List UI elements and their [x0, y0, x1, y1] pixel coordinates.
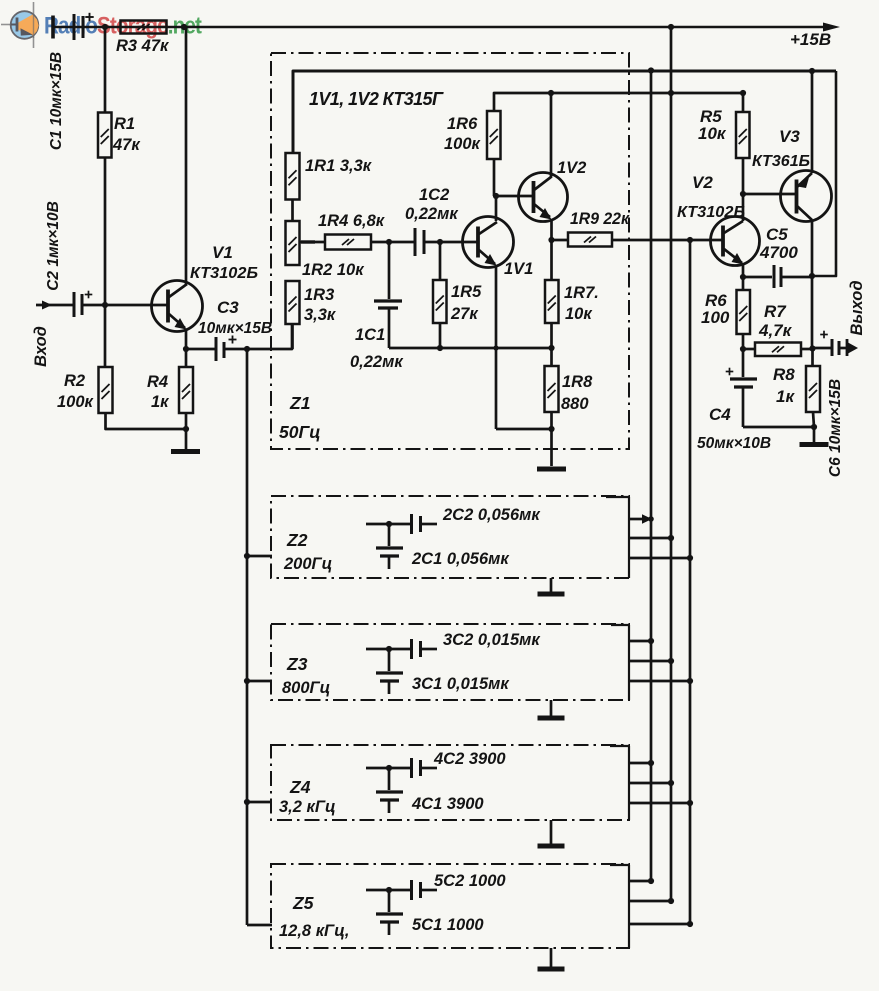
svg-text:880: 880 [561, 395, 589, 413]
wire 1C2 to 1V1 base [425, 241, 477, 244]
wire rail to R1 [104, 27, 107, 112]
resistor 1R8 [550, 348, 553, 366]
transistor 1V2 KT315G [519, 173, 568, 222]
capacitor 2C2 [366, 523, 410, 526]
wire Z3 right border solid [628, 625, 630, 700]
svg-text:4700: 4700 [759, 243, 798, 262]
wire node to R2 [104, 305, 107, 367]
wire 1R9 to V2 base [612, 239, 722, 242]
svg-text:1R4 6,8к: 1R4 6,8к [318, 212, 386, 230]
wire 1R6 top supply [494, 93, 743, 111]
wire Z2 right border solid [628, 497, 630, 578]
transistor V2 KT3102B [711, 217, 760, 266]
wire Z2 branch2 [629, 537, 671, 540]
svg-text:R4: R4 [147, 373, 168, 391]
node bus2 supply [668, 90, 674, 96]
resistor R7 [743, 348, 755, 351]
node R8 bottom junction [811, 424, 817, 430]
svg-text:100к: 100к [444, 135, 482, 153]
wire Z3 branch1 [629, 640, 651, 643]
svg-text:+15В: +15В [790, 30, 831, 49]
node V1 emitter junction [183, 346, 189, 352]
svg-text:V3: V3 [779, 127, 800, 146]
resistor 1R5 [439, 242, 442, 280]
svg-text:3,3к: 3,3к [304, 306, 337, 324]
node base junction [102, 302, 108, 308]
wire Z5 branch2 [629, 900, 671, 903]
svg-text:1С1: 1С1 [355, 326, 385, 344]
capacitor 3C2 [366, 648, 410, 651]
svg-text:800Гц: 800Гц [282, 679, 330, 697]
resistor 1R2 [286, 221, 300, 265]
capacitor C1 [73, 14, 76, 40]
wire 1R1-1R2 [291, 200, 294, 222]
wire +15V rail [53, 26, 830, 29]
block Z1 dash-dot border [271, 53, 629, 449]
svg-text:2С1 0,056мк: 2С1 0,056мк [411, 550, 510, 568]
svg-text:Z5: Z5 [292, 893, 314, 913]
wire C4 to ground run [743, 426, 814, 429]
block Z2 dash-dot border [271, 496, 629, 578]
node bus1 top [648, 67, 654, 73]
wire Z5 branch3 [629, 923, 690, 926]
capacitor C4 [742, 349, 745, 377]
wire V3 collector to R7 node [811, 276, 814, 348]
svg-text:1к: 1к [151, 393, 170, 411]
svg-text:1к: 1к [776, 387, 795, 406]
ground main [185, 429, 188, 449]
svg-text:5С1 1000: 5С1 1000 [412, 916, 484, 934]
node V2 emitter junction [740, 274, 746, 280]
svg-text:С2 1мк×10В: С2 1мк×10В [45, 201, 62, 291]
svg-text:Z1: Z1 [289, 393, 310, 413]
wire Z4 branch1 [629, 762, 651, 765]
svg-text:4С2 3900: 4С2 3900 [433, 750, 506, 768]
svg-text:10к: 10к [698, 124, 727, 143]
svg-text:Z3: Z3 [286, 654, 308, 674]
resistor 1R3 [286, 281, 300, 324]
capacitor C6 output [813, 347, 831, 350]
capacitor 4C1 [388, 768, 391, 790]
svg-text:R2: R2 [64, 372, 85, 390]
svg-text:С6 10мк×15В: С6 10мк×15В [827, 379, 844, 477]
transistor V1 KT3102B [152, 281, 203, 332]
wire 1V1 emitter to 1R8 bottom [496, 428, 552, 431]
svg-text:1V2: 1V2 [557, 159, 586, 177]
wire emitter bus y348 [389, 347, 552, 350]
node 1C2-1R5 junction [437, 239, 443, 245]
node R6 bottom junction [740, 346, 746, 352]
wire C3 to node [225, 348, 247, 351]
svg-text:С3: С3 [217, 298, 239, 317]
svg-text:С5: С5 [766, 225, 788, 244]
svg-text:1R1 3,3к: 1R1 3,3к [305, 157, 373, 175]
svg-text:КТ361Б: КТ361Б [752, 153, 810, 170]
wire left bus vertical [246, 349, 249, 925]
wire bus2 vertical [670, 27, 673, 901]
svg-text:5С2 1000: 5С2 1000 [434, 872, 506, 890]
svg-text:1V1: 1V1 [504, 260, 533, 278]
node 1V1 emitter crossing [493, 345, 498, 350]
wire bus to Z5 [247, 924, 272, 927]
svg-text:27к: 27к [450, 305, 479, 323]
resistor R4 [185, 349, 188, 367]
ground Z3 [550, 700, 553, 716]
svg-text:0,22мк: 0,22мк [350, 353, 404, 371]
svg-text:1R2 10к: 1R2 10к [302, 261, 365, 279]
svg-text:12,8 кГц,: 12,8 кГц, [279, 922, 349, 940]
svg-text:3С2 0,015мк: 3С2 0,015мк [443, 631, 541, 649]
svg-text:2С2 0,056мк: 2С2 0,056мк [442, 506, 541, 524]
capacitor 5C1 [388, 890, 391, 912]
watermark RadioStorage.net logo [1, 2, 39, 48]
+15V arrow [823, 23, 840, 32]
resistor 1R4 [300, 241, 325, 244]
wire Z4 branch2 [629, 782, 671, 785]
node bus3 origin [687, 237, 693, 243]
ground Z5 [550, 948, 553, 967]
ground output [813, 427, 816, 442]
wire into Z1 filter input [247, 324, 292, 349]
node R7-R8-C6 junction [809, 345, 815, 351]
svg-text:С1 10мк×15В: С1 10мк×15В [48, 52, 65, 150]
svg-text:R7: R7 [764, 302, 787, 321]
svg-text:47к: 47к [112, 136, 141, 154]
svg-text:Выход: Выход [848, 280, 866, 335]
node A rail-R3 junction [102, 24, 108, 30]
svg-text:КТ3102Б: КТ3102Б [677, 204, 745, 221]
svg-text:3,2 кГц: 3,2 кГц [279, 798, 336, 816]
node 1V2 emitter junction [548, 237, 554, 243]
ground Z4 [550, 820, 553, 844]
capacitor C3 [186, 348, 215, 351]
svg-text:V1: V1 [212, 243, 233, 262]
wire Z5 right border solid [628, 865, 630, 948]
node R4 bottom junction [185, 413, 188, 429]
wire Z5 branch1 [629, 880, 651, 883]
wire supply corner right [812, 71, 836, 276]
svg-text:R8: R8 [773, 365, 795, 384]
block Z4 dash-dot border [271, 745, 629, 820]
wire Z3 branch2 [629, 660, 671, 663]
wire Z3 branch3 [629, 680, 690, 683]
wire 1R3 bottom [291, 324, 294, 349]
svg-text:R3 47к: R3 47к [116, 37, 170, 55]
svg-text:100к: 100к [57, 393, 95, 411]
transistor 1V1 KT315G [463, 217, 514, 268]
resistor R8 [811, 348, 814, 366]
capacitor C2 [73, 292, 76, 317]
output terminal [846, 339, 849, 356]
svg-text:1R3: 1R3 [304, 286, 334, 304]
node 1V1 collector junction [493, 193, 499, 199]
svg-text:1R8: 1R8 [562, 373, 593, 391]
block Z3 dash-dot border [271, 624, 629, 700]
node 1R7 bottom junction [548, 345, 554, 351]
svg-text:Вход: Вход [32, 326, 50, 367]
svg-text:10мк×15В: 10мк×15В [198, 320, 272, 337]
wire Z4 branch3 [629, 802, 690, 805]
node bus-Z4 [244, 799, 250, 805]
capacitor 1C1 [388, 242, 391, 299]
node 1R8 bottom junction [548, 426, 554, 432]
svg-text:4,7к: 4,7к [758, 321, 793, 340]
node V3 collector-C5 junction [809, 273, 815, 279]
svg-text:200Гц: 200Гц [283, 555, 332, 573]
svg-text:1С2: 1С2 [419, 186, 449, 204]
svg-text:Z4: Z4 [289, 777, 311, 797]
node rail-bus2 junction [668, 24, 674, 30]
ground Z1 [550, 429, 553, 466]
wire bus1 vertical [650, 70, 653, 881]
node C3 output junction [244, 346, 250, 352]
node 1R5 bottom junction [437, 345, 443, 351]
resistor R3 [121, 21, 167, 34]
svg-text:КТ3102Б: КТ3102Б [190, 265, 258, 282]
wire R1 to base node [104, 157, 107, 305]
wire Z2 branch1 [629, 518, 643, 521]
wire R2 bottom to ground run [106, 413, 187, 429]
wire Z2 branch3 [629, 557, 690, 560]
wire Z1 internal supply (thick) [293, 71, 836, 153]
svg-text:0,22мк: 0,22мк [405, 205, 459, 223]
svg-text:4С1 3900: 4С1 3900 [411, 795, 484, 813]
svg-text:3С1 0,015мк: 3С1 0,015мк [412, 675, 510, 693]
node bus-Z3 [244, 678, 250, 684]
svg-text:1R7.: 1R7. [564, 284, 599, 302]
ground Z2 [550, 578, 553, 592]
svg-text:1R6: 1R6 [447, 115, 478, 133]
svg-text:1R9 22к: 1R9 22к [570, 210, 631, 228]
wire bus3 vertical [689, 240, 692, 924]
node V3 emitter-supply [809, 68, 815, 74]
resistor R2 [99, 367, 113, 413]
resistor R6 [742, 277, 745, 290]
svg-text:V2: V2 [692, 173, 713, 192]
svg-text:50Гц: 50Гц [279, 422, 321, 442]
wire Z4 right border solid [628, 746, 630, 820]
resistor 1R9 [552, 239, 569, 242]
svg-text:10к: 10к [565, 305, 593, 323]
input arrow [36, 304, 73, 307]
resistor 1R7 [550, 240, 553, 280]
capacitor 1C2 [414, 228, 417, 256]
block Z5 dash-dot border [271, 864, 629, 948]
svg-text:50мк×10В: 50мк×10В [697, 435, 771, 452]
svg-text:Z2: Z2 [286, 530, 308, 550]
capacitor 5C2 [366, 889, 410, 892]
resistor R1 [98, 113, 112, 158]
resistor 1R6 [487, 111, 501, 159]
capacitor 4C2 [366, 767, 410, 770]
resistor R5 [742, 93, 745, 112]
capacitor 3C1 [388, 649, 391, 671]
svg-text:1R5: 1R5 [451, 283, 482, 301]
capacitor C5 [743, 276, 772, 279]
node 1V2 collector-supply [548, 90, 554, 96]
node bus-Z2 [244, 553, 250, 559]
node R5 top [740, 90, 746, 96]
transistor V3 KT361B (PNP) [781, 171, 832, 222]
node 1R4-1C1 junction [386, 239, 392, 245]
resistor 1R1 [286, 153, 300, 200]
node R5-V2 collector-V3 base [740, 191, 746, 197]
terminal bar left end [51, 16, 55, 39]
capacitor 2C1 [388, 524, 391, 546]
svg-text:С4: С4 [709, 405, 731, 424]
node B rail-collector junction [181, 24, 187, 30]
svg-text:100: 100 [701, 308, 730, 327]
wire C2 to V1 base [83, 304, 167, 307]
svg-text:R1: R1 [114, 115, 135, 133]
svg-text:1V1, 1V2 КТ315Г: 1V1, 1V2 КТ315Г [309, 89, 444, 109]
